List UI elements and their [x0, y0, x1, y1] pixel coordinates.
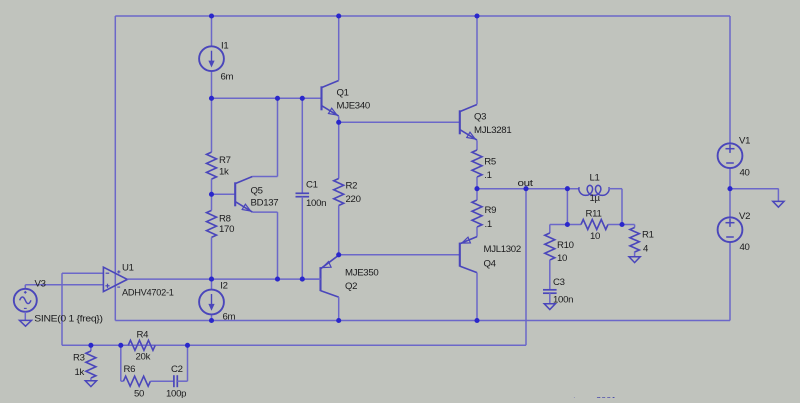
svg-text:Q5: Q5	[251, 186, 263, 197]
svg-text:100p: 100p	[166, 389, 186, 399]
svg-text:R11: R11	[586, 209, 602, 220]
svg-text:1µ: 1µ	[590, 193, 601, 204]
svg-text:U1: U1	[122, 262, 134, 273]
svg-text:20k: 20k	[136, 352, 151, 363]
svg-text:MJL3281: MJL3281	[474, 125, 511, 136]
svg-text:R3: R3	[73, 353, 85, 364]
svg-text:MJE340: MJE340	[337, 101, 370, 112]
svg-text:R10: R10	[557, 240, 574, 251]
svg-text:R7: R7	[219, 155, 231, 166]
svg-text:V3: V3	[35, 279, 46, 290]
svg-text:50: 50	[134, 389, 144, 399]
svg-text:C2: C2	[171, 364, 183, 375]
svg-text:C1: C1	[306, 180, 318, 191]
svg-text:10: 10	[557, 253, 567, 264]
svg-text:R4: R4	[137, 330, 150, 341]
svg-text:BD137: BD137	[251, 198, 279, 209]
svg-text:40: 40	[740, 168, 750, 179]
svg-text:I2: I2	[220, 281, 227, 292]
svg-text:.1: .1	[484, 170, 491, 181]
svg-text:R5: R5	[484, 156, 496, 167]
svg-text:170: 170	[219, 224, 234, 235]
svg-text:1k: 1k	[219, 167, 229, 178]
svg-text:100n: 100n	[553, 294, 573, 305]
svg-text:R8: R8	[219, 213, 231, 224]
svg-text:MJL1302: MJL1302	[484, 244, 521, 255]
svg-text:ADHV4702-1: ADHV4702-1	[122, 287, 174, 298]
svg-text:V2: V2	[739, 211, 750, 222]
svg-text:100n: 100n	[306, 198, 326, 209]
svg-text:Q1: Q1	[337, 87, 349, 98]
svg-text:C3: C3	[553, 277, 565, 288]
svg-text:220: 220	[346, 194, 361, 205]
svg-text:L1: L1	[590, 173, 600, 184]
svg-text:V1: V1	[739, 136, 750, 147]
svg-text:I1: I1	[221, 40, 228, 51]
svg-text:6m: 6m	[221, 71, 234, 82]
svg-text:Q3: Q3	[474, 112, 486, 123]
svg-text:R9: R9	[485, 205, 497, 216]
svg-text:MJE350: MJE350	[345, 268, 378, 279]
svg-text:Q4: Q4	[484, 259, 497, 270]
svg-text:.1: .1	[485, 219, 492, 230]
svg-text:Q2: Q2	[345, 281, 357, 292]
svg-text:R1: R1	[642, 230, 654, 241]
svg-text:R6: R6	[124, 364, 136, 375]
svg-text:1k: 1k	[75, 367, 85, 378]
svg-text:10: 10	[590, 231, 600, 242]
svg-text:6m: 6m	[223, 312, 236, 323]
svg-text:SINE(0 1 {freq}): SINE(0 1 {freq})	[34, 314, 102, 325]
svg-text:out: out	[518, 178, 534, 189]
svg-text:40: 40	[740, 242, 750, 253]
svg-text:R2: R2	[346, 181, 358, 192]
